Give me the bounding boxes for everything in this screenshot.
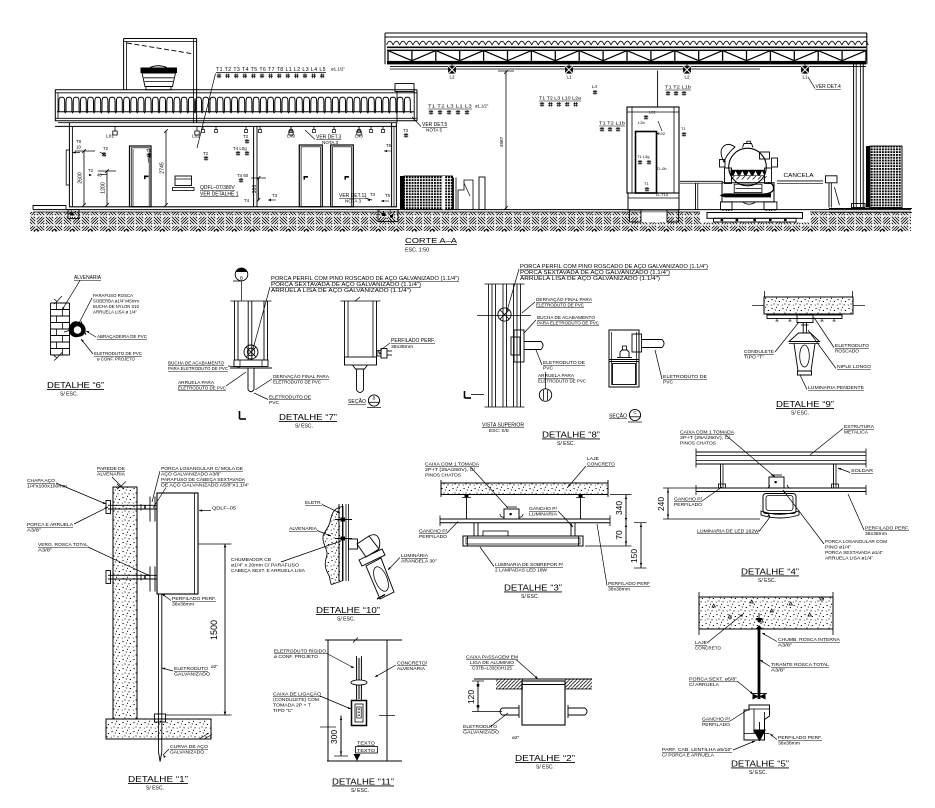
svg-text:S/ ESC.: S/ ESC.: [146, 786, 164, 792]
svg-text:DETALHE “9”: DETALHE “9”: [776, 399, 834, 409]
svg-text:ALVENARIA: ALVENARIA: [97, 472, 126, 478]
svg-text:ELETRODUTO DE: ELETRODUTO DE: [663, 374, 707, 380]
detail 1 panel QDLF: [157, 493, 198, 594]
svg-text:CONCRETO: CONCRETO: [695, 646, 721, 652]
svg-text:QDFL–07/380V: QDFL–07/380V: [200, 185, 235, 191]
svg-text:T1 L3g: T1 L3g: [637, 154, 649, 159]
svg-text:PINOS CHATOS: PINOS CHATOS: [680, 441, 716, 447]
canopy truss top chord: [387, 46, 866, 48]
canopy roof top band: [385, 32, 867, 34]
svg-text:GALVANIZADO: GALVANIZADO: [463, 730, 499, 736]
svg-text:T3: T3: [272, 193, 278, 198]
left wall louver: [66, 150, 69, 185]
svg-text:LAJE: LAJE: [695, 640, 707, 646]
svg-text:CURVA DE AÇO: CURVA DE AÇO: [170, 744, 208, 750]
building roof corrugated tiles: [59, 97, 411, 111]
svg-text:38x38mm: 38x38mm: [391, 344, 413, 349]
svg-text:D–0b: D–0b: [657, 166, 667, 171]
svg-text:SOLDAR: SOLDAR: [851, 468, 874, 474]
water tank tower sloped brace (dashed): [127, 43, 194, 54]
detail 1 footing: [106, 719, 211, 739]
svg-text:BUCHA DE NYLON S10: BUCHA DE NYLON S10: [93, 304, 139, 309]
svg-text:SEÇÃO: SEÇÃO: [609, 413, 627, 420]
svg-text:ALVENARIA: ALVENARIA: [289, 526, 318, 532]
detail 8 bottom circle symbol: [539, 389, 551, 401]
canopy truss bottom chord: [387, 61, 866, 65]
height dimension 4987: [505, 71, 507, 209]
fuel truck hazard stripe band: [731, 170, 766, 176]
svg-text:38x38mm: 38x38mm: [778, 741, 800, 746]
canopy lamp L1 d: [804, 64, 806, 66]
detail 6 brick wall: [51, 302, 70, 304]
svg-text:CONCRETO: CONCRETO: [587, 462, 615, 468]
left gate arm: [680, 180, 723, 182]
svg-text:PVC: PVC: [269, 400, 280, 406]
svg-text:1200: 1200: [101, 182, 107, 194]
detail 10 luminaire ring: [359, 549, 385, 566]
svg-text:70: 70: [614, 530, 624, 540]
fuel truck right brackets: [760, 152, 770, 159]
svg-text:T2: T2: [103, 146, 109, 151]
svg-text:LUMINARIA DE SOBREPOR P/: LUMINARIA DE SOBREPOR P/: [495, 562, 564, 568]
svg-text:ARRUELA PARA: ARRUELA PARA: [178, 380, 215, 386]
corte A-A ground hatch: [30, 212, 911, 231]
svg-text:S/ ESC.: S/ ESC.: [60, 392, 78, 398]
svg-text:ø2”: ø2”: [512, 735, 520, 741]
detail 11 frame: [327, 640, 329, 761]
detail 8 cross line: [477, 315, 531, 317]
canopy lamp L2 a: [451, 64, 453, 66]
detail 4 LED luminaire: [763, 494, 796, 514]
svg-text:PAREDE DE: PAREDE DE: [97, 466, 125, 472]
svg-text:CAIXA COM 1 TOMADA: CAIXA COM 1 TOMADA: [680, 430, 735, 436]
svg-text:240: 240: [656, 497, 666, 511]
svg-text:C: C: [633, 410, 636, 415]
svg-text:2P+T (25A/250V), C/: 2P+T (25A/250V), C/: [680, 435, 731, 441]
svg-text:ELETR.: ELETR.: [305, 500, 322, 506]
detail 7 section view channel: [344, 301, 346, 365]
detail 8 post front view: [488, 284, 490, 407]
fuel truck hose: [766, 183, 774, 195]
detail 2 soil hatch left: [496, 679, 523, 689]
svg-text:TEXTO: TEXTO: [357, 741, 375, 747]
svg-text:ø CONF. PROJETO: ø CONF. PROJETO: [97, 357, 135, 362]
svg-text:300: 300: [329, 730, 339, 744]
detail 9 mounting plate: [767, 315, 842, 319]
svg-text:ø1.1/2”: ø1.1/2”: [475, 104, 489, 109]
building roof slab band: [55, 89, 417, 91]
svg-text:2745: 2745: [160, 162, 166, 174]
canopy lamp L2 c: [686, 64, 688, 66]
svg-text:T3: T3: [370, 192, 376, 197]
detail 7 bottom plate band: [234, 360, 268, 367]
detail 1 lower bracket: [108, 574, 157, 576]
svg-text:ARRUELA PARA: ARRUELA PARA: [538, 373, 575, 379]
svg-text:ESTRUTURA: ESTRUTURA: [844, 424, 875, 430]
detail 7 L mark: [239, 411, 241, 419]
corte A-A ground line: [33, 209, 911, 211]
fuel truck wheels: [721, 202, 733, 210]
canopy truss web members: [387, 50, 389, 61]
svg-text:2P+T (25A/250V), C/: 2P+T (25A/250V), C/: [425, 467, 476, 473]
svg-text:2600: 2600: [78, 172, 84, 184]
svg-text:T5: T5: [386, 143, 392, 148]
dispenser conduit drop: [657, 71, 659, 107]
svg-text:ALVENARIA: ALVENARIA: [74, 275, 102, 281]
detail 6 conduit clamp blob: [69, 321, 86, 337]
svg-text:CAIXA PASSAGEM EM: CAIXA PASSAGEM EM: [466, 655, 518, 661]
left fence mesh gate: [400, 176, 404, 210]
right gate arm: [777, 180, 823, 182]
svg-text:DETALHE “3”: DETALHE “3”: [504, 583, 562, 593]
svg-text:ELETRODUTO DE PVC: ELETRODUTO DE PVC: [178, 386, 226, 392]
svg-text:S/ ESC.: S/ ESC.: [557, 441, 575, 447]
svg-text:DERIVAÇÃO FINAL PARA: DERIVAÇÃO FINAL PARA: [536, 296, 593, 303]
svg-text:DETALHE “7”: DETALHE “7”: [279, 412, 337, 422]
svg-text:ARRUELA LISA ø 1/4”: ARRUELA LISA ø 1/4”: [93, 310, 137, 315]
detail 11 conduit: [356, 656, 358, 701]
svg-text:PARF. CAB. LENTILHA ø5/16”: PARF. CAB. LENTILHA ø5/16”: [662, 747, 732, 753]
svg-text:ELETRODUTO DE PVC: ELETRODUTO DE PVC: [273, 380, 321, 386]
detail 9 shade: [789, 333, 820, 342]
detail 2 right pipe: [568, 707, 585, 709]
detail 1 conduit through footing: [158, 719, 160, 752]
svg-text:T1 T2 L3 L10 L2a: T1 T2 L3 L10 L2a: [539, 96, 582, 101]
svg-text:L2b: L2b: [638, 120, 645, 125]
fence small gate left: [453, 178, 455, 210]
svg-text:ø2”: ø2”: [211, 664, 218, 669]
svg-text:T4 60: T4 60: [237, 173, 249, 178]
dispenser cabinet door: [636, 132, 657, 194]
detail 8 clamp box: [511, 337, 520, 355]
svg-text:L49: L49: [287, 134, 295, 139]
svg-text:S/ ESC.: S/ ESC.: [791, 411, 809, 417]
svg-text:GALVANIZADO: GALVANIZADO: [174, 672, 210, 678]
canopy right column: [853, 64, 855, 207]
svg-text:T3: T3: [403, 128, 409, 133]
svg-text:BUCHA DE ACABAMENTO: BUCHA DE ACABAMENTO: [168, 361, 224, 366]
svg-text:LUMINARIA: LUMINARIA: [529, 512, 558, 518]
detail 3 luminaire: [463, 536, 583, 546]
detail 3 concrete slab: [441, 483, 608, 495]
truck platform: [700, 211, 810, 223]
svg-text:T2: T2: [146, 148, 152, 153]
detail 2 box: [522, 681, 565, 725]
svg-text:DERIVAÇÃO FINAL PARA: DERIVAÇÃO FINAL PARA: [273, 373, 330, 380]
svg-text:PORCA E ARRUELA: PORCA E ARRUELA: [27, 522, 74, 528]
svg-text:VER DET.4: VER DET.4: [816, 84, 842, 90]
dimension 2745: [165, 131, 167, 205]
svg-text:T1 T2 L1b: T1 T2 L1b: [599, 121, 626, 126]
svg-text:ESC. 1:50: ESC. 1:50: [405, 248, 429, 254]
svg-text:T1: T1: [644, 181, 649, 186]
detail 8 conduit stub: [524, 341, 541, 343]
detail 11 collar: [351, 680, 367, 685]
svg-text:PERFILADO: PERFILADO: [419, 534, 447, 540]
fuel truck chassis: [722, 183, 774, 202]
svg-text:GANCHO P/: GANCHO P/: [674, 497, 703, 503]
svg-text:(CONDULETE) COM: (CONDULETE) COM: [273, 697, 319, 703]
svg-text:TIPO “T”: TIPO “T”: [744, 355, 764, 361]
detail 5 gancho channel: [744, 705, 770, 740]
detail 1 footing drain mark: [199, 733, 212, 739]
svg-text:4987: 4987: [499, 136, 505, 147]
svg-text:L01: L01: [106, 134, 114, 139]
svg-text:DETALHE “8”: DETALHE “8”: [542, 430, 600, 440]
building footing left: [68, 210, 79, 219]
detail 1 upper bracket: [108, 504, 157, 506]
detail 9 stem niple: [802, 323, 804, 334]
svg-text:T1 T2 T3 T4 T5 T6 T7 T8 L1 L2: T1 T2 T3 T4 T5 T6 T7 T8 L1 L2 L3 L4 L5: [216, 67, 326, 73]
svg-text:38x38mm: 38x38mm: [865, 531, 887, 536]
svg-text:C/ ARRUELA: C/ ARRUELA: [689, 682, 720, 688]
detail 9 concrete slab: [764, 297, 853, 314]
dispenser pit: [641, 212, 667, 222]
svg-text:B: B: [373, 396, 376, 401]
svg-text:38x38mm: 38x38mm: [172, 602, 194, 607]
svg-text:VERG. ROSCA TOTAL: VERG. ROSCA TOTAL: [38, 542, 88, 548]
svg-text:S/ ESC.: S/ ESC.: [337, 617, 355, 623]
svg-text:PARA ELETRODUTO DE PVC: PARA ELETRODUTO DE PVC: [168, 366, 229, 371]
svg-text:NOTA 3: NOTA 3: [322, 140, 338, 145]
svg-text:ROSCADO: ROSCADO: [835, 349, 859, 355]
detail 4 outlet box: [769, 477, 784, 488]
detail 10 wall blob: [323, 507, 343, 585]
svg-text:K02: K02: [658, 131, 666, 136]
water tank lid: [141, 68, 178, 74]
svg-text:BUCHA DE ACABAMENTO: BUCHA DE ACABAMENTO: [537, 315, 595, 321]
svg-text:B: B: [240, 276, 243, 281]
corte A-A ground hatch bottom ticks: [34, 229, 902, 232]
detail 10 luminaire glass: [366, 558, 394, 599]
svg-text:ELETRODUTO DE PVC: ELETRODUTO DE PVC: [538, 379, 586, 385]
svg-text:ARANDELA 30°: ARANDELA 30°: [401, 559, 437, 565]
svg-text:PORCA LOSANGULAR COM: PORCA LOSANGULAR COM: [825, 539, 887, 544]
svg-text:QDLF–05: QDLF–05: [212, 506, 236, 512]
building right wall: [391, 123, 393, 207]
svg-text:DE AÇO GALVANIZADO A5/8”X1.1/4: DE AÇO GALVANIZADO A5/8”X1.1/4”: [161, 483, 250, 488]
svg-text:CONCRETO/: CONCRETO/: [397, 661, 428, 667]
svg-text:ARRUELA LISA ø1/4”: ARRUELA LISA ø1/4”: [825, 556, 873, 561]
fuel truck bumper bar: [720, 193, 772, 197]
svg-text:T4 L0g: T4 L0g: [233, 146, 247, 151]
detail 11 dim 300: [340, 716, 342, 757]
svg-text:DETALHE “6”: DETALHE “6”: [47, 380, 104, 390]
svg-text:10: 10: [76, 145, 81, 150]
svg-text:CANCELA: CANCELA: [784, 173, 815, 179]
svg-text:L02: L02: [192, 134, 200, 139]
svg-text:PINOS CHATOS: PINOS CHATOS: [425, 473, 461, 479]
svg-text:T8: T8: [76, 139, 82, 144]
detail 7 section bolt: [377, 351, 381, 357]
svg-text:T1 T2 L1b: T1 T2 L1b: [665, 85, 692, 90]
detail 8 L mark: [464, 391, 466, 398]
svg-text:PARA ELETRODUTO DE PVC: PARA ELETRODUTO DE PVC: [537, 321, 599, 327]
svg-text:GANCHO P/: GANCHO P/: [419, 529, 448, 535]
svg-text:PERFILADO: PERFILADO: [702, 722, 730, 728]
svg-text:1500: 1500: [209, 620, 219, 640]
svg-text:ESC: S/E: ESC: S/E: [489, 428, 509, 433]
lamp point L01: [114, 126, 116, 131]
svg-text:LUMINARIA DE LED 162W: LUMINARIA DE LED 162W: [697, 529, 759, 535]
water tank tower posts: [123, 39, 125, 90]
svg-text:GALVANIZADO: GALVANIZADO: [170, 750, 204, 756]
fuel truck top cap: [743, 144, 754, 148]
svg-text:NOTA 5: NOTA 5: [426, 128, 442, 133]
building floor line: [69, 206, 397, 208]
svg-text:A3/8”: A3/8”: [778, 643, 792, 649]
detail 1 dimension 1500: [224, 544, 226, 715]
canopy roof scallops: [387, 41, 869, 45]
svg-text:CHUMB. ROSCA INTERNA: CHUMB. ROSCA INTERNA: [778, 637, 841, 643]
svg-text:SOBERBA ø1/4”x45mm: SOBERBA ø1/4”x45mm: [93, 299, 139, 304]
svg-text:TIPO “C”: TIPO “C”: [273, 708, 293, 714]
fuel truck tank: [729, 148, 767, 186]
detail 5 tirante rod: [758, 629, 761, 699]
svg-text:GANCHO P/: GANCHO P/: [529, 506, 558, 512]
right fence mesh panel: [866, 146, 870, 208]
detail 4 perfilado rail: [696, 487, 866, 489]
corte A-A ground step left: [33, 206, 66, 210]
building right roof edge bracket: [395, 84, 414, 92]
svg-text:ELETRODUTO: ELETRODUTO: [835, 343, 869, 349]
detail 1 masonry wall: [113, 487, 137, 719]
svg-text:A3/8”: A3/8”: [38, 548, 52, 554]
dimension 300 partition: [258, 178, 260, 200]
svg-text:T4: T4: [244, 198, 250, 203]
detail 9 condulete T: [797, 315, 813, 323]
svg-text:ELETRODUTO RÍGIDO: ELETRODUTO RÍGIDO: [274, 648, 326, 655]
svg-text:TIRANTE ROSCA TOTAL: TIRANTE ROSCA TOTAL: [771, 662, 829, 668]
svg-text:T1 T2 L3 L1 L3: T1 T2 L3 L1 L3: [428, 104, 472, 109]
detail 7 section nut and tube: [353, 365, 368, 369]
detail 3 hanger rods: [466, 495, 468, 520]
svg-text:C/ PORCA E ARRUELA: C/ PORCA E ARRUELA: [662, 753, 715, 759]
dispenser pedestal: [628, 193, 679, 210]
fuel truck band ticks: [731, 176, 767, 179]
detail 2 soil hatch right: [565, 679, 592, 689]
svg-text:NIPLE LONGO: NIPLE LONGO: [837, 364, 871, 370]
detail 3 dim 340: [625, 495, 627, 523]
lamp point L49: [290, 126, 292, 131]
svg-text:DETALHE “2”: DETALHE “2”: [515, 753, 575, 763]
svg-text:CAIXA COM 1 TOMADA: CAIXA COM 1 TOMADA: [425, 462, 480, 468]
detail 7 channel front view: [234, 301, 236, 360]
detail 10 luminaire shade: [357, 536, 379, 557]
svg-text:340: 340: [614, 501, 624, 515]
detail 10 bolts: [335, 519, 352, 521]
svg-text:ELETRODUTO: ELETRODUTO: [174, 666, 208, 672]
svg-text:TEXTO: TEXTO: [357, 748, 375, 754]
wall-hung fixture: [175, 176, 192, 186]
canopy purlin line: [390, 66, 866, 68]
building left wall: [68, 123, 70, 207]
detail 3 dim 70: [625, 523, 627, 546]
svg-text:DETALHE “10”: DETALHE “10”: [316, 605, 380, 615]
detail 8 side flange and pipe: [632, 334, 642, 352]
svg-text:1/4”x100x100mm: 1/4”x100x100mm: [27, 484, 67, 490]
svg-text:120: 120: [466, 690, 476, 704]
detail 2 ground line: [474, 678, 592, 680]
svg-text:ø CONF. PROJETO: ø CONF. PROJETO: [274, 654, 318, 660]
svg-text:ALVENARIA: ALVENARIA: [397, 666, 426, 672]
building partition wall: [253, 126, 255, 206]
detail 8 bolt circle: [498, 308, 511, 321]
svg-text:METALICA: METALICA: [844, 430, 869, 436]
svg-text:S/ ESC.: S/ ESC.: [749, 770, 767, 776]
svg-text:ABRAÇADEIRA DE PVC: ABRAÇADEIRA DE PVC: [97, 334, 147, 340]
detail 8 side lower box: [613, 364, 636, 385]
detail 9 glass: [794, 344, 815, 372]
svg-text:L2: L2: [684, 74, 690, 79]
svg-text:CAIXA DE LIGAÇÃO: CAIXA DE LIGAÇÃO: [273, 691, 321, 698]
ceiling conduit hangers: [202, 126, 204, 129]
detail 3 dim 150: [640, 523, 642, 568]
svg-text:PORCA SEXT. ø5/8”: PORCA SEXT. ø5/8”: [689, 677, 737, 683]
svg-text:L4: L4: [592, 84, 597, 89]
detail 5 slab triangles: [712, 604, 715, 607]
right gate post: [826, 176, 838, 183]
svg-text:PVC: PVC: [663, 380, 674, 386]
right kerb: [829, 208, 912, 210]
detail 1 perfilado below panel: [158, 594, 160, 719]
svg-text:C37B–L33(X)H125: C37B–L33(X)H125: [472, 666, 513, 671]
svg-text:LUMINÁRIA: LUMINÁRIA: [401, 552, 429, 559]
svg-text:PORCA LOSANGULAR C/ MOLA DE: PORCA LOSANGULAR C/ MOLA DE: [161, 466, 243, 471]
building eave / ceiling lines: [58, 122, 397, 124]
detail 8 side divider: [609, 359, 639, 361]
detail 11 condulete box: [352, 701, 367, 726]
svg-text:A3/8”: A3/8”: [27, 528, 41, 534]
detail 3 outlet box: [504, 509, 519, 519]
detail 2 dim 120: [477, 681, 479, 712]
lamp point L43: [358, 126, 360, 131]
svg-text:DETALHE “5”: DETALHE “5”: [731, 759, 789, 769]
svg-text:ø1/4” x 20mm C/ PARAFUSO: ø1/4” x 20mm C/ PARAFUSO: [231, 563, 299, 568]
dimension 2600: [83, 151, 85, 205]
svg-text:S/ ESC.: S/ ESC.: [521, 594, 539, 600]
svg-text:DETALHE “4”: DETALHE “4”: [741, 567, 799, 577]
svg-text:PARAFUSO ROSCA: PARAFUSO ROSCA: [93, 293, 134, 298]
canopy lamp L1 b: [568, 64, 570, 66]
detail 7 section marker B top: [235, 268, 248, 281]
svg-text:L2: L2: [449, 74, 455, 79]
svg-text:300: 300: [252, 185, 258, 194]
column base plate: [852, 204, 866, 208]
detail 1 curva tip: [159, 752, 162, 762]
svg-text:PERFILADO: PERFILADO: [674, 502, 702, 508]
svg-text:CABEÇA SEXT. E ARRUELA LISA: CABEÇA SEXT. E ARRUELA LISA: [231, 568, 306, 573]
door D2 left leaf: [299, 145, 322, 207]
dispenser feet: [630, 210, 642, 222]
svg-text:PARAFUSO DE CABEÇA SEXTAVADA: PARAFUSO DE CABEÇA SEXTAVADA: [161, 477, 246, 482]
svg-text:2 LAMPADAS LED 18W: 2 LAMPADAS LED 18W: [495, 568, 547, 574]
dimension 1200: [106, 171, 108, 205]
svg-text:PINO ø1/4”: PINO ø1/4”: [825, 545, 852, 550]
svg-text:L1: L1: [566, 74, 572, 79]
svg-text:L43: L43: [355, 134, 363, 139]
svg-text:DETALHE “11”: DETALHE “11”: [332, 777, 394, 787]
svg-text:TOMADA 2P + T: TOMADA 2P + T: [273, 703, 311, 709]
detail 6 wall break ticks: [54, 299, 57, 304]
svg-text:150: 150: [629, 549, 639, 563]
detail 8 side view bolt assembly: [620, 350, 629, 357]
svg-text:L01: L01: [649, 110, 656, 115]
svg-text:A3/8”: A3/8”: [771, 668, 785, 674]
svg-text:S/ ESC.: S/ ESC.: [295, 424, 313, 430]
fuel truck side posts: [725, 168, 732, 184]
svg-text:ELETRODUTO DE: ELETRODUTO DE: [543, 360, 585, 366]
